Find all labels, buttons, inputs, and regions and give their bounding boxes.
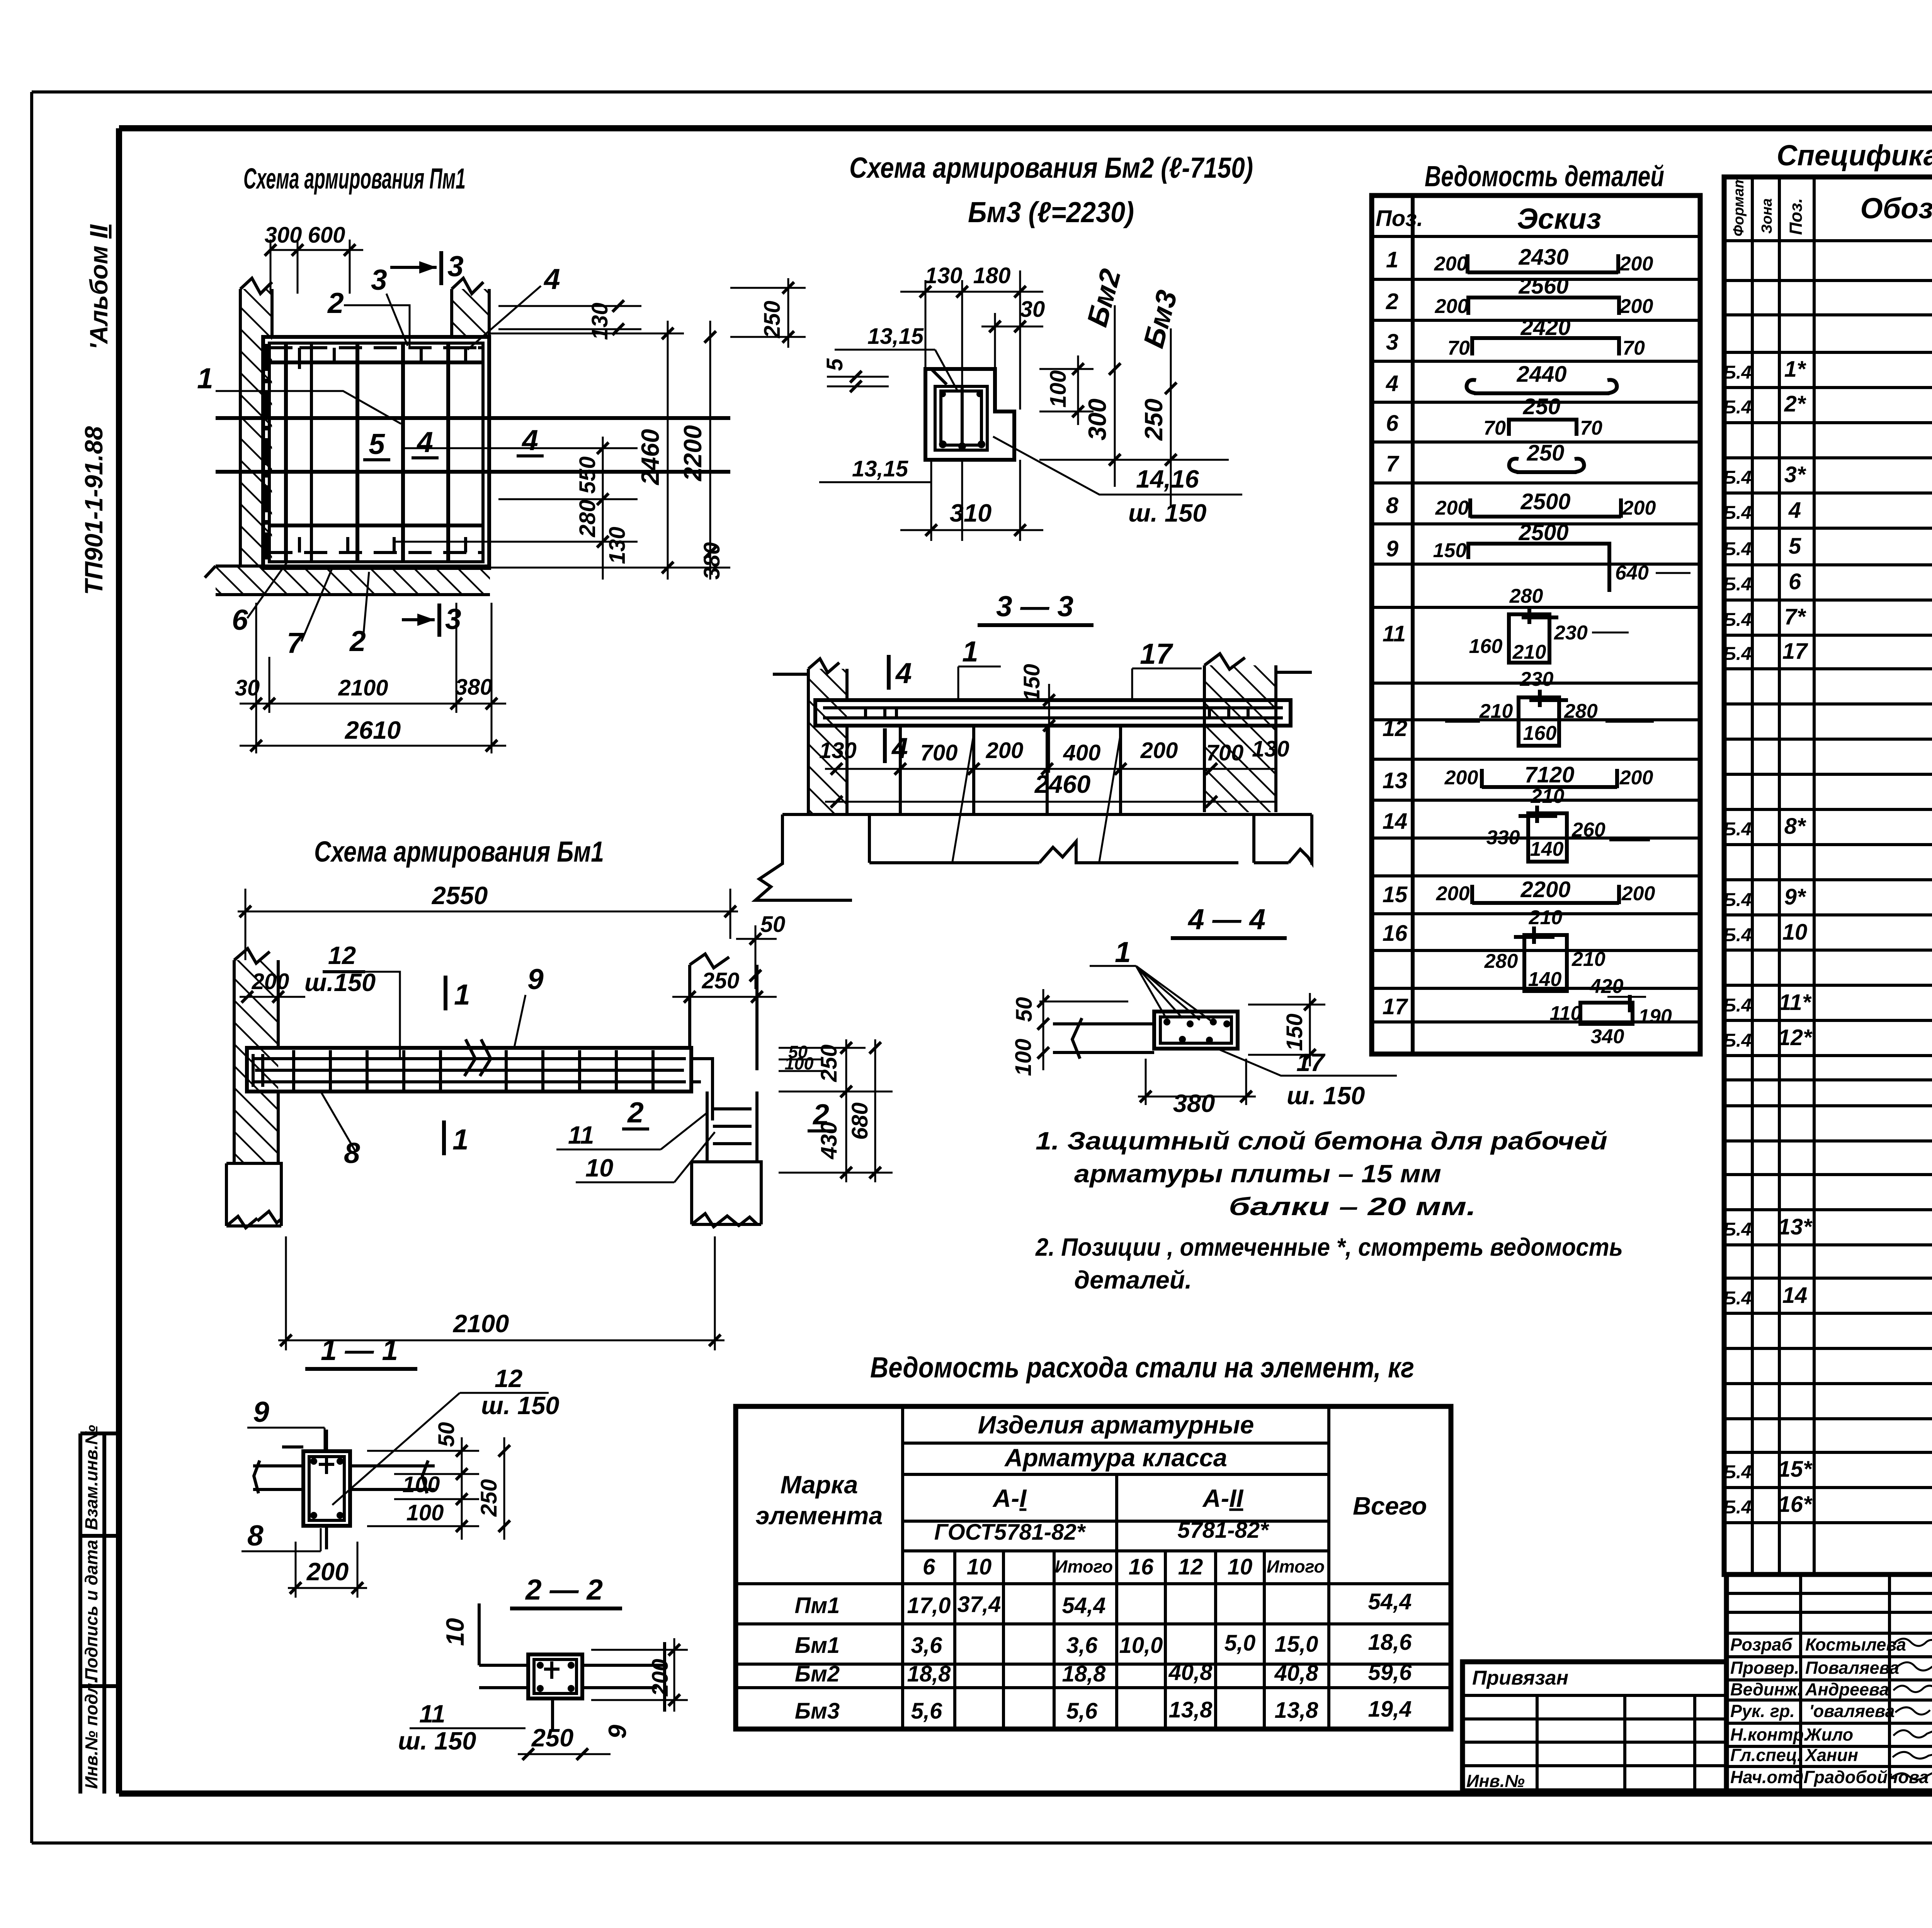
Bm1 dim 2550 (238, 881, 738, 962)
svg-text:37,4: 37,4 (957, 1592, 1001, 1617)
svg-text:420: 420 (1590, 975, 1624, 998)
svg-text:380: 380 (699, 542, 724, 580)
svg-text:4: 4 (895, 657, 912, 689)
svg-text:4 — 4: 4 — 4 (1187, 903, 1265, 935)
svg-text:5,6: 5,6 (1066, 1698, 1098, 1724)
svg-text:700: 700 (920, 740, 958, 765)
Bm2 dim 30 (981, 297, 1045, 332)
svg-text:3: 3 (445, 603, 461, 635)
svg-text:100: 100 (406, 1500, 444, 1525)
Pm1 dim 130 right (498, 300, 641, 340)
svg-text:Б.4: Б.4 (1723, 574, 1752, 595)
svg-text:12*: 12* (1778, 1025, 1813, 1050)
svg-text:130: 130 (1252, 736, 1289, 762)
Bm1 beam right end hook (691, 1059, 713, 1120)
VD row 13 (1383, 762, 1653, 793)
Pm1 bottom dim 2610 (240, 716, 506, 751)
svg-text:5: 5 (369, 428, 385, 460)
svg-text:Бм1: Бм1 (795, 1633, 840, 1658)
svg-text:Ведомость расхода стали на: Ведомость расхода стали на элемент, кг (870, 1351, 1414, 1384)
VD row 12 stirrup (1383, 668, 1654, 746)
svg-text:Андреева: Андреева (1805, 1680, 1889, 1699)
svg-text:4: 4 (543, 263, 560, 295)
svg-text:200: 200 (306, 1557, 349, 1586)
svg-text:8: 8 (344, 1137, 360, 1169)
svg-text:Б.4: Б.4 (1723, 503, 1752, 523)
VD row 14 stirrup (1383, 785, 1650, 862)
svg-text:2500: 2500 (1520, 489, 1570, 514)
svg-text:250: 250 (1139, 399, 1168, 441)
svg-text:2460: 2460 (636, 429, 664, 486)
svg-text:50: 50 (760, 912, 786, 937)
svg-text:8: 8 (247, 1519, 264, 1552)
svg-text:Б.4: Б.4 (1723, 1497, 1752, 1518)
Pm1 vertical bars (267, 343, 448, 562)
svg-text:12: 12 (328, 941, 356, 969)
Bm1 left foundation block (226, 1163, 281, 1228)
svg-text:40,8: 40,8 (1168, 1660, 1213, 1685)
svg-text:6: 6 (1386, 411, 1399, 436)
Pm1 left wall (hatched) (240, 278, 272, 566)
svg-text:640: 640 (1615, 562, 1649, 584)
svg-text:17: 17 (1383, 994, 1408, 1019)
svg-text:Б.4: Б.4 (1723, 397, 1752, 418)
svg-text:11: 11 (1383, 621, 1406, 646)
svg-text:18,8: 18,8 (1062, 1661, 1106, 1687)
steel table row Bm3 (795, 1697, 1412, 1724)
3-3 dim 150 (1019, 664, 1055, 773)
svg-text:4: 4 (416, 426, 433, 458)
1-1 label 12 sh.150 leader (332, 1364, 559, 1505)
svg-text:230: 230 (1520, 668, 1554, 690)
svg-text:200: 200 (1619, 767, 1653, 789)
svg-text:ш. 150: ш. 150 (398, 1727, 476, 1755)
svg-text:элемента: элемента (755, 1501, 883, 1530)
Bm2 vertical dim line Bm2 300 (1039, 265, 1229, 487)
svg-text:16*: 16* (1778, 1492, 1813, 1517)
svg-text:17: 17 (1296, 1048, 1325, 1076)
steel table row Bm1 (795, 1630, 1412, 1658)
svg-text:6: 6 (923, 1554, 935, 1579)
2-2 label 11 sh.150 (398, 1700, 526, 1755)
4-4 dims 50 100 (1011, 989, 1128, 1076)
Bm1 dim 200 left (240, 969, 305, 1003)
svg-text:3: 3 (447, 250, 464, 282)
svg-text:9*: 9* (1784, 884, 1806, 910)
svg-text:250: 250 (1523, 394, 1561, 419)
svg-text:Марка: Марка (781, 1471, 858, 1499)
VD row 16 stirrup (1383, 906, 1605, 991)
svg-text:17: 17 (1782, 639, 1808, 664)
Bm2 dim 100 (1039, 355, 1094, 425)
svg-text:10: 10 (585, 1154, 613, 1182)
svg-text:13,8: 13,8 (1275, 1698, 1319, 1723)
svg-text:15*: 15* (1778, 1457, 1813, 1482)
svg-text:150: 150 (1019, 664, 1044, 701)
svg-text:8: 8 (1386, 493, 1399, 518)
Bm1 right dims 50 100 250 (779, 1039, 893, 1101)
svg-text:Пм1: Пм1 (795, 1593, 840, 1618)
svg-text:Итого: Итого (1055, 1557, 1113, 1576)
Bm1 dim 250 right col (672, 968, 777, 1003)
svg-text:260: 260 (1571, 819, 1605, 841)
svg-text:200: 200 (986, 738, 1024, 763)
4-4 slab stub left (1053, 1018, 1154, 1059)
svg-text:6: 6 (232, 604, 248, 636)
svg-text:250: 250 (760, 301, 785, 338)
svg-text:59,6: 59,6 (1368, 1660, 1412, 1685)
svg-text:230: 230 (1554, 622, 1588, 644)
svg-text:200: 200 (1621, 882, 1655, 905)
svg-text:70: 70 (1622, 337, 1645, 359)
svg-text:250: 250 (531, 1724, 573, 1752)
svg-text:Б.4: Б.4 (1723, 1219, 1752, 1240)
Pm1 label 2 leader (327, 287, 410, 348)
VD row 11 stirrup (1383, 585, 1629, 663)
Pm1 labels 5 4 (363, 424, 544, 460)
svg-text:1. Защитный слой бетона д: 1. Защитный слой бетона для рабочей (1036, 1127, 1607, 1155)
svg-text:5,6: 5,6 (911, 1698, 942, 1724)
svg-text:ш. 150: ш. 150 (1128, 499, 1206, 527)
2-2 label 10 (441, 1603, 479, 1665)
svg-text:2420: 2420 (1520, 315, 1570, 340)
svg-text:Нач.отд.: Нач.отд. (1730, 1767, 1808, 1787)
3-3 stirrup verticals below slab (900, 726, 1121, 862)
svg-text:160: 160 (1523, 722, 1557, 745)
svg-text:9: 9 (253, 1396, 269, 1428)
svg-text:12: 12 (1178, 1554, 1203, 1579)
svg-text:15,0: 15,0 (1275, 1632, 1318, 1657)
svg-text:54,4: 54,4 (1062, 1593, 1106, 1618)
Pm1 horizontal bars (216, 348, 730, 553)
privyazan table (1463, 1662, 1726, 1791)
svg-text:200: 200 (1434, 253, 1468, 275)
Pm1 bar hooks (299, 348, 476, 553)
Bm2 vertical dim line Bm3 250 (1137, 287, 1183, 506)
svg-text:Б.4: Б.4 (1723, 1030, 1752, 1051)
svg-text:15: 15 (1383, 882, 1408, 907)
svg-text:300: 300 (265, 223, 302, 248)
3-3 slab with reinforcement (815, 700, 1291, 726)
svg-text:Подпись и дата: Подпись и дата (82, 1540, 101, 1681)
Bm2 label 13,15 top (835, 324, 958, 392)
svg-text:1: 1 (452, 1123, 469, 1156)
svg-text:Б.4: Б.4 (1723, 995, 1752, 1016)
svg-text:Бм3 (ℓ=2230): Бм3 (ℓ=2230) (968, 196, 1134, 228)
svg-text:Схема армирования Бм2 (ℓ-7150: Схема армирования Бм2 (ℓ-7150) (849, 151, 1253, 184)
svg-text:280: 280 (575, 500, 600, 537)
svg-text:Зона: Зона (1759, 198, 1775, 234)
svg-text:Ведомость деталей: Ведомость деталей (1425, 160, 1664, 192)
Bm2 top dims 130 180 (900, 263, 1043, 298)
Pm1 label 4 leader (468, 263, 560, 350)
svg-text:Б.4: Б.4 (1723, 1462, 1752, 1483)
svg-text:9: 9 (527, 963, 544, 995)
svg-text:180: 180 (973, 263, 1011, 288)
svg-text:200: 200 (1444, 767, 1478, 789)
notes text block (1035, 1127, 1623, 1294)
svg-text:1*: 1* (1784, 357, 1806, 382)
svg-text:10: 10 (967, 1554, 992, 1579)
svg-text:ш.150: ш.150 (304, 968, 376, 996)
3-3 section marker 4 bottom (885, 728, 908, 764)
svg-text:Схема армирования Бм1: Схема армирования Бм1 (314, 835, 604, 868)
svg-text:2100: 2100 (338, 675, 388, 700)
4-4 beam cross-section (1154, 1012, 1238, 1049)
svg-text:1 — 1: 1 — 1 (321, 1334, 398, 1366)
svg-text:Бм2: Бм2 (795, 1661, 840, 1687)
Pm1 section marker 3 bottom (402, 603, 461, 637)
svg-text:430: 430 (816, 1122, 842, 1160)
svg-text:4: 4 (521, 424, 538, 456)
svg-text:100: 100 (784, 1054, 813, 1073)
svg-text:54,4: 54,4 (1368, 1589, 1412, 1614)
svg-text:13: 13 (1383, 768, 1408, 793)
svg-text:2560: 2560 (1518, 274, 1568, 299)
svg-text:210: 210 (1512, 641, 1546, 663)
svg-text:2460: 2460 (1034, 770, 1091, 798)
svg-text:330: 330 (1486, 826, 1520, 849)
svg-text:100: 100 (1046, 370, 1071, 408)
Bm2 bottom dim 310 (900, 499, 1043, 536)
svg-text:300: 300 (1083, 399, 1111, 440)
svg-text:Ханин: Ханин (1804, 1745, 1858, 1765)
svg-text:150: 150 (1433, 539, 1467, 562)
svg-text:30: 30 (1020, 297, 1045, 322)
Pm1 labels 6 7 2 bottom (232, 561, 369, 659)
svg-text:210: 210 (1529, 906, 1563, 929)
2-2 dim 250 (518, 1724, 611, 1760)
svg-text:Инв.№: Инв.№ (1466, 1771, 1525, 1791)
Bm1 right foundation block (692, 1162, 761, 1227)
svg-text:400: 400 (1063, 740, 1101, 765)
signature rows text (1730, 1635, 1932, 1787)
svg-text:Б.4: Б.4 (1723, 539, 1752, 559)
svg-text:200: 200 (648, 1659, 673, 1697)
Pm1 top dim 300 600 (265, 223, 363, 294)
section title 4-4 (1171, 903, 1287, 938)
Bm1 dim 50 right (736, 912, 785, 989)
svg-text:40,8: 40,8 (1274, 1661, 1319, 1686)
steel table row Bm2 (795, 1660, 1412, 1687)
2-2 beam cross-section (528, 1654, 582, 1698)
svg-text:14: 14 (1383, 809, 1408, 834)
Pm1 dim 2200 (679, 321, 716, 580)
Bm1 beam stirrups (294, 1050, 653, 1090)
svg-text:1: 1 (962, 635, 978, 668)
svg-text:Поз.: Поз. (1376, 206, 1423, 231)
svg-text:Б.4: Б.4 (1723, 362, 1752, 383)
1-1 label 8 leader (241, 1519, 321, 1552)
specification header texts (1731, 175, 1932, 236)
svg-text:280: 280 (1509, 585, 1543, 607)
3-3 label 1 leader (958, 635, 1001, 701)
svg-text:680: 680 (847, 1102, 872, 1140)
svg-text:2440: 2440 (1516, 362, 1566, 387)
Pm1 bottom slab (hatched) (205, 566, 490, 595)
1-1 dims 50 100 100 250 (367, 1422, 510, 1540)
svg-text:2200: 2200 (1520, 877, 1570, 902)
svg-text:1: 1 (454, 978, 470, 1011)
svg-text:18,6: 18,6 (1368, 1630, 1412, 1655)
VD row 6 (1386, 394, 1602, 439)
svg-text:250: 250 (816, 1044, 842, 1082)
svg-text:3: 3 (371, 264, 387, 296)
svg-text:Б.4: Б.4 (1723, 610, 1752, 630)
svg-text:13,15: 13,15 (867, 324, 924, 349)
svg-text:ш. 150: ш. 150 (481, 1391, 559, 1420)
svg-text:арматуры плиты – 15 мм: арматуры плиты – 15 мм (1074, 1160, 1441, 1188)
section title 1-1 (305, 1334, 417, 1369)
svg-text:50: 50 (1012, 997, 1037, 1022)
svg-text:600: 600 (308, 223, 345, 248)
VD row 3 (1386, 315, 1645, 359)
svg-text:2200: 2200 (679, 425, 707, 482)
steel table header texts (755, 1411, 1427, 1579)
svg-text:310: 310 (950, 499, 992, 527)
svg-text:3: 3 (1386, 330, 1398, 355)
svg-text:130: 130 (605, 527, 630, 564)
svg-text:2500: 2500 (1518, 520, 1568, 545)
svg-text:ш. 150: ш. 150 (1287, 1081, 1365, 1110)
svg-text:Рук. гр.: Рук. гр. (1730, 1701, 1795, 1721)
svg-text:12: 12 (495, 1364, 522, 1392)
svg-text:210: 210 (1479, 700, 1513, 723)
svg-text:Изделия арматурные: Изделия арматурные (978, 1411, 1254, 1439)
svg-text:Взам.инв.№: Взам.инв.№ (82, 1425, 101, 1530)
svg-text:250: 250 (1527, 440, 1565, 466)
svg-text:340: 340 (1591, 1025, 1624, 1048)
svg-text:12: 12 (1383, 716, 1408, 741)
svg-text:10: 10 (1782, 920, 1808, 945)
Pm1 dim 250 top right (730, 278, 806, 348)
VD row 7 (1386, 440, 1584, 476)
Bm1 right upper column (690, 954, 757, 1070)
svg-text:2: 2 (627, 1096, 644, 1129)
3-3 dim 2460 (825, 770, 1275, 808)
svg-text:30: 30 (235, 675, 260, 700)
svg-text:11*: 11* (1779, 990, 1812, 1015)
svg-text:2. Позиции , отмеченные *, смо: 2. Позиции , отмеченные *, смотреть ведо… (1035, 1233, 1623, 1261)
svg-text:Б.4: Б.4 (1723, 890, 1752, 910)
Bm2 leader 14,16 sh.150 (993, 437, 1242, 527)
Bm1 label 12 sh150 leader (304, 941, 400, 1059)
Bm1 beam break symbol (464, 1039, 491, 1076)
svg-text:Бм2: Бм2 (1080, 265, 1127, 330)
svg-text:9: 9 (603, 1725, 631, 1739)
signature squiggles (1889, 1639, 1932, 1780)
Pm1 reinforcement cage outline (263, 337, 489, 568)
svg-text:2*: 2* (1784, 391, 1806, 417)
svg-text:140: 140 (1528, 968, 1562, 991)
svg-text:Поваляева: Поваляева (1805, 1658, 1899, 1678)
1-1 beam cross-section (282, 1447, 350, 1526)
svg-text:Инв.№ подл.: Инв.№ подл. (82, 1678, 101, 1789)
2-2 stub lines (479, 1642, 665, 1731)
svg-text:6: 6 (1789, 569, 1801, 594)
svg-text:Провер.: Провер. (1730, 1658, 1799, 1678)
svg-text:Итого: Итого (1267, 1557, 1325, 1576)
4-4 dim 150 (1248, 993, 1325, 1066)
svg-text:11: 11 (568, 1121, 594, 1149)
specification grid (1724, 177, 1932, 1574)
svg-text:160: 160 (1469, 635, 1503, 658)
svg-text:Б.4: Б.4 (1723, 1288, 1752, 1309)
svg-text:Поз.: Поз. (1786, 198, 1806, 235)
svg-text:700: 700 (1206, 740, 1244, 765)
svg-text:Формат: Формат (1731, 175, 1747, 236)
svg-text:13,8: 13,8 (1169, 1697, 1213, 1722)
specification rows (1723, 248, 1932, 1562)
Pm1 label 1 leader (197, 362, 401, 424)
svg-text:'Альбом II: 'Альбом II (85, 224, 113, 350)
svg-text:14,16: 14,16 (1136, 465, 1199, 493)
svg-text:1: 1 (1115, 936, 1131, 968)
section title 3-3 (978, 590, 1094, 625)
svg-text:70: 70 (1483, 417, 1506, 439)
svg-text:Б.4: Б.4 (1723, 468, 1752, 488)
3-3 label 17 leader (1132, 638, 1202, 701)
Bm2 extension verticals (925, 270, 1020, 541)
svg-text:9: 9 (1386, 536, 1398, 561)
svg-text:Эскиз: Эскиз (1517, 202, 1601, 235)
1-1 label 9 leader (247, 1396, 325, 1453)
Bm1 right dims 430 680 (779, 1039, 893, 1182)
VD row 2 (1386, 274, 1653, 318)
VD row 4 (1386, 362, 1617, 396)
svg-text:250: 250 (702, 968, 740, 993)
svg-text:100: 100 (1011, 1039, 1036, 1076)
svg-text:130: 130 (925, 263, 963, 288)
Pm1 bottom dim chain 30 2100 380 (235, 603, 506, 753)
VD row 17 (1383, 975, 1672, 1048)
Pm1 section marker 3 top (390, 250, 464, 285)
svg-text:16: 16 (1383, 921, 1408, 946)
svg-text:Б.4: Б.4 (1723, 925, 1752, 945)
Pm1 dims 550 280 130 stack (394, 437, 724, 580)
svg-text:100: 100 (403, 1472, 440, 1497)
svg-text:14: 14 (1782, 1283, 1808, 1308)
4-4 dim 380 (1138, 1059, 1256, 1117)
svg-text:Всего: Всего (1353, 1492, 1427, 1520)
svg-text:'оваляева: 'оваляева (1809, 1701, 1895, 1721)
svg-text:7: 7 (287, 627, 304, 659)
svg-text:Спецификация к схемам ар: Спецификация к схемам армирования. (1777, 139, 1932, 172)
VD row 9 (1386, 520, 1690, 592)
svg-text:17,0: 17,0 (907, 1593, 951, 1618)
svg-text:2 — 2: 2 — 2 (525, 1573, 603, 1606)
svg-text:2: 2 (1386, 289, 1398, 314)
Bm1 labels 11 10 leaders (556, 1113, 715, 1182)
svg-text:10,0: 10,0 (1119, 1633, 1163, 1658)
svg-text:190: 190 (1638, 1005, 1672, 1028)
svg-text:200: 200 (1619, 295, 1653, 318)
steel table grid (736, 1406, 1451, 1729)
svg-text:2610: 2610 (344, 716, 401, 744)
svg-text:Жило: Жило (1804, 1725, 1853, 1744)
svg-text:ГОСТ5781-82*: ГОСТ5781-82* (934, 1520, 1086, 1545)
signature grid (1726, 1574, 1932, 1791)
Bm1 bottom dim 2100 (278, 1236, 724, 1350)
svg-text:210: 210 (1571, 948, 1605, 971)
svg-text:140: 140 (1530, 838, 1564, 860)
svg-text:Гл.спец.: Гл.спец. (1730, 1745, 1802, 1765)
svg-text:2430: 2430 (1518, 245, 1568, 270)
svg-text:13*: 13* (1778, 1214, 1813, 1239)
Bm1 section marks 1-1 (444, 976, 470, 1156)
svg-text:280: 280 (1484, 950, 1518, 973)
Bm1 label 8 leader (321, 1092, 360, 1169)
